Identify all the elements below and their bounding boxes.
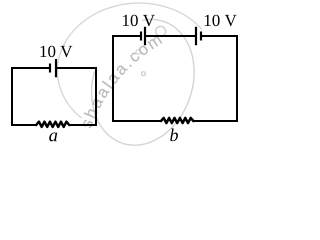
wire: circuit b top segment 3 — [202, 35, 239, 37]
label: 10 V (circuit a) — [40, 46, 72, 58]
label: b — [170, 129, 178, 142]
wire: circuit a right vertical — [95, 67, 97, 126]
wire: circuit b top segment 2 (between cells) — [146, 35, 196, 37]
battery cell 1, 10 V (circuit b): tall positive plate — [144, 27, 146, 45]
battery cell 1, 10 V (circuit b): short negative plate — [140, 32, 142, 41]
wire: circuit b top segment 1 — [112, 35, 141, 37]
resistor a (zigzag) — [36, 122, 69, 127]
wire: circuit a bottom left segment — [11, 124, 37, 126]
battery cell 2, 10 V (circuit b): tall positive plate — [195, 27, 197, 45]
wire: circuit b bottom right segment — [193, 120, 238, 122]
wire: circuit a top right segment — [57, 67, 98, 69]
battery cell 10 V (circuit a): short negative plate — [49, 64, 51, 73]
wire: circuit a top left segment — [11, 67, 50, 69]
battery cell 10 V (circuit a): tall positive plate — [55, 59, 57, 77]
wire: circuit b bottom left segment — [112, 120, 162, 122]
label: a — [49, 132, 57, 141]
resistor b (zigzag) — [161, 118, 193, 123]
watermark orbit arcs — [58, 3, 203, 145]
wire: circuit b left vertical — [112, 35, 114, 122]
wire: circuit a left vertical — [11, 67, 13, 126]
label: 10 V (cell 1, circuit b) — [123, 15, 155, 27]
watermark text shaalaa.com — [83, 36, 162, 128]
wire: circuit b right vertical — [236, 35, 238, 122]
label: 10 V (cell 2, circuit b) — [205, 15, 237, 27]
battery cell 2, 10 V (circuit b): short negative plate — [200, 32, 202, 41]
wire: circuit a bottom right segment — [69, 124, 97, 126]
